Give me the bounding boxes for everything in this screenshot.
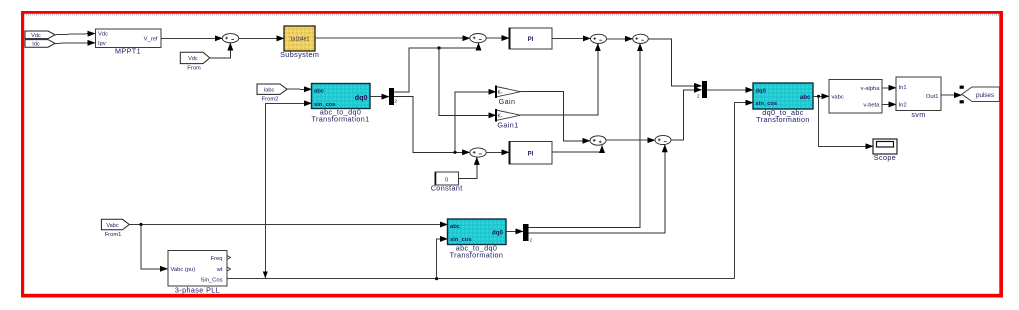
block abc_to_dq0 Transformation1 <box>311 84 370 124</box>
wire sumC out to mux2 <box>648 39 701 86</box>
svg-text:From2: From2 <box>262 96 279 102</box>
block PI1 <box>509 28 553 49</box>
svg-text:Sin_Cos: Sin_Cos <box>201 278 223 284</box>
wire sumE to sumF <box>606 139 655 141</box>
svg-text:K-: K- <box>498 114 503 120</box>
sum junction sumC <box>633 34 649 43</box>
svg-text:Ipv: Ipv <box>98 41 106 47</box>
svg-text:Out1: Out1 <box>926 94 939 100</box>
svg-text:sin_cos: sin_cos <box>450 237 472 243</box>
svg-text:In2: In2 <box>899 103 907 109</box>
wire demux2 out2 to sumF bottom <box>529 145 665 233</box>
block valphabeta <box>829 80 882 114</box>
wire Vabc to Transformation abc (junction to PLL) <box>129 223 447 269</box>
sum junction sumB <box>591 34 607 43</box>
gain Gain <box>496 86 521 107</box>
svg-text:Freq: Freq <box>211 256 223 262</box>
from tag Vdc From <box>180 52 210 71</box>
wire MPPT1 V_ref to sum1 <box>161 37 222 39</box>
svg-text:dq0: dq0 <box>756 89 766 95</box>
svg-text:svm: svm <box>911 110 925 119</box>
wire demux1 q-out to sumD (with branch to Gain) <box>394 92 496 154</box>
selection handles on pulses wire <box>960 86 964 89</box>
svg-text:vabc: vabc <box>832 94 844 100</box>
wire sumD to PI2 <box>486 151 509 153</box>
block abc_to_dq0 Transformation (bottom) <box>448 219 507 260</box>
gain Gain1 <box>496 109 521 129</box>
wire dq0_to_abc abc out to valphabeta (junction to scope) <box>813 95 873 147</box>
wire Vdc From to sum1 <box>210 43 231 58</box>
sum junction sumF <box>655 135 671 144</box>
block dq0_to_abc Transformation <box>753 83 813 124</box>
wire Vdc tag to MPPT1 <box>55 34 95 35</box>
block Subsystem <box>280 26 319 59</box>
wire sumF to mux2 <box>671 90 702 140</box>
svg-text:wt: wt <box>216 267 223 273</box>
block Scope <box>873 139 897 162</box>
svg-text:v-beta: v-beta <box>863 102 880 108</box>
wire demux2 out1 to sumC bottom <box>529 44 641 228</box>
wire Subsystem to sumA <box>315 37 470 39</box>
svg-text:1a1b4e1: 1a1b4e1 <box>290 37 310 43</box>
svg-text:Transformation: Transformation <box>450 251 504 260</box>
wire PI1 to sumB <box>552 37 590 39</box>
svg-text:abc: abc <box>314 88 325 94</box>
wire sin_cos riser to dq0_to_abc <box>735 103 753 279</box>
svg-text:Gain: Gain <box>499 97 516 106</box>
svg-text:v-alpha: v-alpha <box>860 86 880 92</box>
wire mux2 to dq0_to_abc <box>707 89 753 91</box>
wire Constant to sumD <box>459 157 477 178</box>
svg-text:dq0: dq0 <box>492 230 504 237</box>
sum junction sum1 <box>222 34 238 43</box>
svg-text:abc: abc <box>450 224 461 230</box>
svg-text:Scope: Scope <box>874 153 896 162</box>
svg-text:Vabc (pu): Vabc (pu) <box>171 267 196 273</box>
wire demux1 d-out to sumA (with branch to Gain1) <box>394 43 496 115</box>
goto tag pulses <box>962 87 1000 102</box>
svg-text:Vdc: Vdc <box>98 32 108 38</box>
svg-text:Vabc: Vabc <box>106 223 119 229</box>
svg-text:K-: K- <box>498 90 503 96</box>
arrowhead down onto sin_cos bus <box>263 272 268 279</box>
from tag Iabc From2 <box>257 84 287 102</box>
wire svm Out1 to pulses goto <box>941 94 962 96</box>
wire Iabc From2 to Transformation1 abc <box>287 88 312 90</box>
wire sin_cos riser to Transformation (bottom) <box>437 239 448 279</box>
svg-text:dq0: dq0 <box>355 93 368 102</box>
wire Gain1 out to sumB bottom <box>521 44 598 116</box>
from tag Vabc From1 <box>101 219 129 238</box>
demux demux2 <box>523 224 533 243</box>
svg-text:Transformation1: Transformation1 <box>311 115 369 124</box>
sum junction sumA <box>470 34 486 43</box>
svg-text:In1: In1 <box>899 85 907 91</box>
svg-text:From1: From1 <box>105 232 122 238</box>
svg-text:abc: abc <box>800 94 811 101</box>
svg-text:V_ref: V_ref <box>144 37 158 43</box>
svg-text:Vdc: Vdc <box>188 56 198 62</box>
wire Idc tag to MPPT1 <box>55 42 95 45</box>
block 3-phase PLL <box>168 251 231 295</box>
svg-text:Transformation: Transformation <box>756 115 810 124</box>
canvas dotted edge <box>24 14 999 16</box>
sum junction sumE <box>590 136 606 145</box>
svg-text:Gain1: Gain1 <box>497 121 518 130</box>
wire PLL Sin_Cos bus <box>227 277 735 280</box>
block PI2 <box>509 142 553 165</box>
svg-text:Subsystem: Subsystem <box>280 50 319 59</box>
svg-text:Iabc: Iabc <box>264 87 275 93</box>
wire sum1 to Subsystem <box>239 37 284 39</box>
wire sumB to sumC <box>607 38 633 40</box>
svg-text:Idc: Idc <box>32 41 40 47</box>
wire Gain out to sumE <box>521 92 590 141</box>
svg-text:PI: PI <box>528 37 534 43</box>
demux demux1 <box>389 88 398 105</box>
mux mux2 <box>697 81 707 99</box>
wire Transformation1 dq0 to demux1 <box>370 96 389 98</box>
block MPPT1 <box>96 29 162 56</box>
wire sin_cos riser to Transformation1 <box>265 103 311 278</box>
wire v-beta to svm In2 <box>882 103 896 105</box>
from tag Vdc <box>25 31 55 39</box>
sum junction sumD <box>470 148 486 157</box>
wire v-alpha to svm In1 <box>882 87 896 89</box>
block Constant <box>431 172 463 193</box>
block svm <box>896 77 941 119</box>
svg-text:From: From <box>187 65 201 71</box>
svg-text:3-phase PLL: 3-phase PLL <box>175 286 220 295</box>
wire Transformation dq0 to demux2 <box>506 230 523 232</box>
svg-text:PI: PI <box>528 151 534 157</box>
wire PI2 to sumE bottom <box>552 146 602 152</box>
from tag Idc <box>25 40 55 48</box>
svg-text:Vdc: Vdc <box>31 33 41 39</box>
svg-text:0: 0 <box>445 177 448 183</box>
svg-text:sin_cos: sin_cos <box>756 101 778 107</box>
svg-text:pulses: pulses <box>976 92 994 99</box>
svg-text:MPPT1: MPPT1 <box>115 47 141 56</box>
wire sumA to PI1 <box>486 37 509 39</box>
svg-text:Constant: Constant <box>431 184 463 193</box>
